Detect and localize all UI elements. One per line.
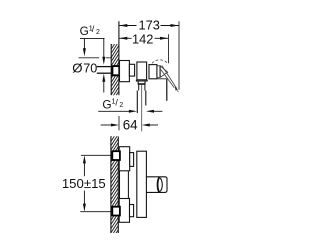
escutcheon top (front view) [119,147,130,171]
svg-text:2: 2 [96,29,100,36]
connector between escutcheons (front view) [120,171,129,199]
dimension 142 [119,32,168,47]
svg-text:173: 173 [139,18,160,33]
svg-text:/: / [115,97,118,107]
outlet pipe [137,91,146,114]
svg-text:70: 70 [83,61,97,75]
label G 1/2 (top left) [80,23,105,38]
cartridge housing (top view) [149,65,157,79]
dimension 150±15 [62,155,112,211]
extension line 173 [178,21,180,90]
label G 1/2 (outlet) [102,97,123,112]
svg-text:G: G [102,97,111,111]
lever blade (down position) [166,79,168,101]
svg-text:/: / [92,24,95,34]
dimension 173 [119,18,179,33]
svg-text:Ø: Ø [72,61,82,76]
short reference line under left arrow [79,57,113,59]
union nut top (front view) [112,151,120,160]
s-union (top view) [129,64,134,76]
mixer body (top view) [137,62,147,80]
outlet leaders with arrows [98,110,162,113]
dimension 64 [101,118,158,133]
leader arrow (shared with dia 70 top) [102,38,105,64]
wall (top view) hatched section [111,33,119,103]
escutcheon (top view) [120,61,130,82]
lever handle (thin outline, pointing down-right) [161,66,179,92]
dashed swing arc [152,60,168,64]
svg-text:2: 2 [119,102,123,109]
dia70 bottom arrow [102,74,105,93]
wall (front view) hatched section [111,126,118,241]
pipe center line [141,85,143,131]
escutcheon bottom (front view) [119,199,129,223]
union nut (top view) on wall [112,66,119,75]
svg-text:150±15: 150±15 [62,176,106,191]
extension line 142 [168,34,170,63]
s-union bottom (front view) [130,205,134,217]
lever cone [157,65,168,77]
supply pipe lines behind wall [97,66,113,68]
outlet steps under body [136,80,147,91]
s-union top (front view) [130,153,134,167]
svg-text:G: G [80,24,89,38]
shelf line under housing [157,78,167,80]
handle (front view) [147,177,168,193]
leader arrow to supply center line [83,38,86,56]
svg-text:64: 64 [123,118,138,133]
union nut bottom (front view) [112,207,120,216]
svg-text:142: 142 [132,32,153,47]
label dia 70 [72,61,97,76]
extension line (wall face, lower) [118,116,120,130]
mixer body (front view) [137,151,147,217]
wall face line / extension line for dims [118,21,120,95]
